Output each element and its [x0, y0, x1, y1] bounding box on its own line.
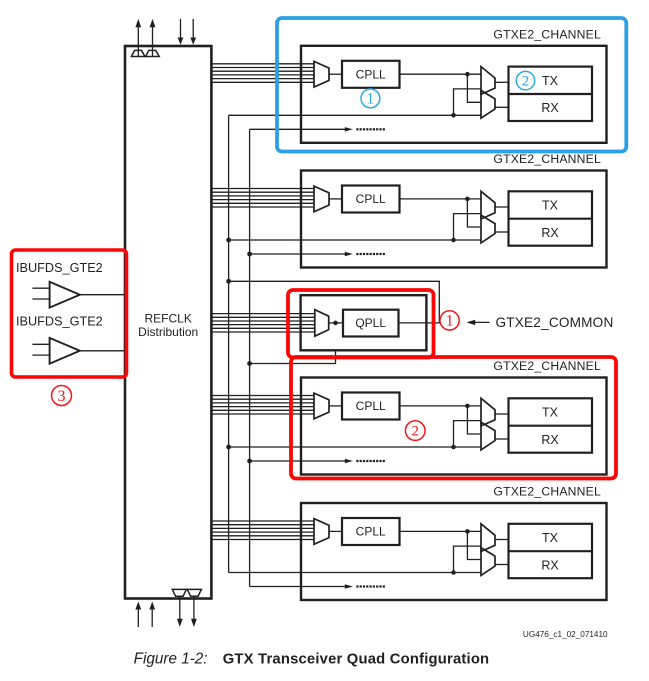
svg-text:UG476_c1_02_071410: UG476_c1_02_071410 [523, 630, 608, 639]
svg-text:3: 3 [58, 388, 66, 405]
svg-text:GTXE2_COMMON: GTXE2_COMMON [496, 315, 614, 330]
svg-text:2: 2 [522, 74, 530, 90]
svg-text:Distribution: Distribution [138, 325, 198, 339]
svg-text:1: 1 [446, 313, 454, 330]
svg-text:REFCLK: REFCLK [145, 312, 192, 326]
svg-text:GTX Transceiver Quad Configura: GTX Transceiver Quad Configuration [223, 652, 490, 668]
svg-text:IBUFDS_GTE2: IBUFDS_GTE2 [16, 261, 103, 275]
svg-text:IBUFDS_GTE2: IBUFDS_GTE2 [16, 315, 103, 329]
svg-text:1: 1 [367, 91, 375, 108]
svg-text:2: 2 [411, 424, 419, 440]
svg-text:Figure 1-2:: Figure 1-2: [134, 651, 208, 668]
svg-text:QPLL: QPLL [355, 316, 386, 330]
